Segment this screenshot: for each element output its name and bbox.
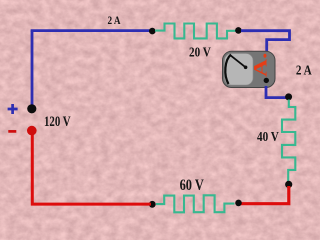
ammeter needle <box>230 55 246 68</box>
battery positive terminal dot (black) <box>27 104 36 113</box>
svg-text:60 V: 60 V <box>180 177 204 195</box>
wire: blue from ammeter bottom terminal down then right to top node of R2 <box>266 86 287 98</box>
wire: red from bottom node of R2 down then left to right node of R3 <box>241 186 289 204</box>
battery negative terminal dot (red) <box>27 126 37 136</box>
label: + polarity of source <box>8 104 18 114</box>
wire: red bottom horizontal then up to battery - terminal <box>32 133 151 204</box>
ammeter dial arc <box>225 55 231 85</box>
resistor R2 (40 V), vertical square-wave zigzag <box>282 100 295 183</box>
wire: blue top horizontal from top-left corner to left node of R1 <box>31 29 152 32</box>
svg-text:2 A: 2 A <box>296 62 313 77</box>
resistor R1 (20 V), horizontal square-wave zigzag <box>155 24 236 39</box>
wire: blue from right node of R1 right, jog down into ammeter top terminal <box>241 31 290 52</box>
wire: blue left vertical from battery + terminal up to top-left corner <box>31 31 34 106</box>
svg-text:A.: A. <box>249 53 270 77</box>
node: junction at left of resistor R1 <box>149 28 156 35</box>
ammeter U1 <box>223 51 276 87</box>
node: junction at top of resistor R2 <box>285 93 292 100</box>
svg-text:120 V: 120 V <box>44 114 71 130</box>
svg-text:20 V: 20 V <box>189 44 211 59</box>
node: junction at right of resistor R1 <box>235 27 242 34</box>
svg-text:2 A: 2 A <box>108 15 121 27</box>
node: junction at bottom of resistor R2 <box>285 181 292 188</box>
node: junction at right of resistor R3 <box>235 200 242 207</box>
ammeter bottom terminal dot <box>264 78 269 83</box>
label: - polarity of source <box>8 130 16 133</box>
node: junction at left of resistor R3 <box>149 201 156 208</box>
svg-text:40 V: 40 V <box>257 129 279 144</box>
resistor R3 (60 V), horizontal square-wave zigzag <box>156 195 235 212</box>
